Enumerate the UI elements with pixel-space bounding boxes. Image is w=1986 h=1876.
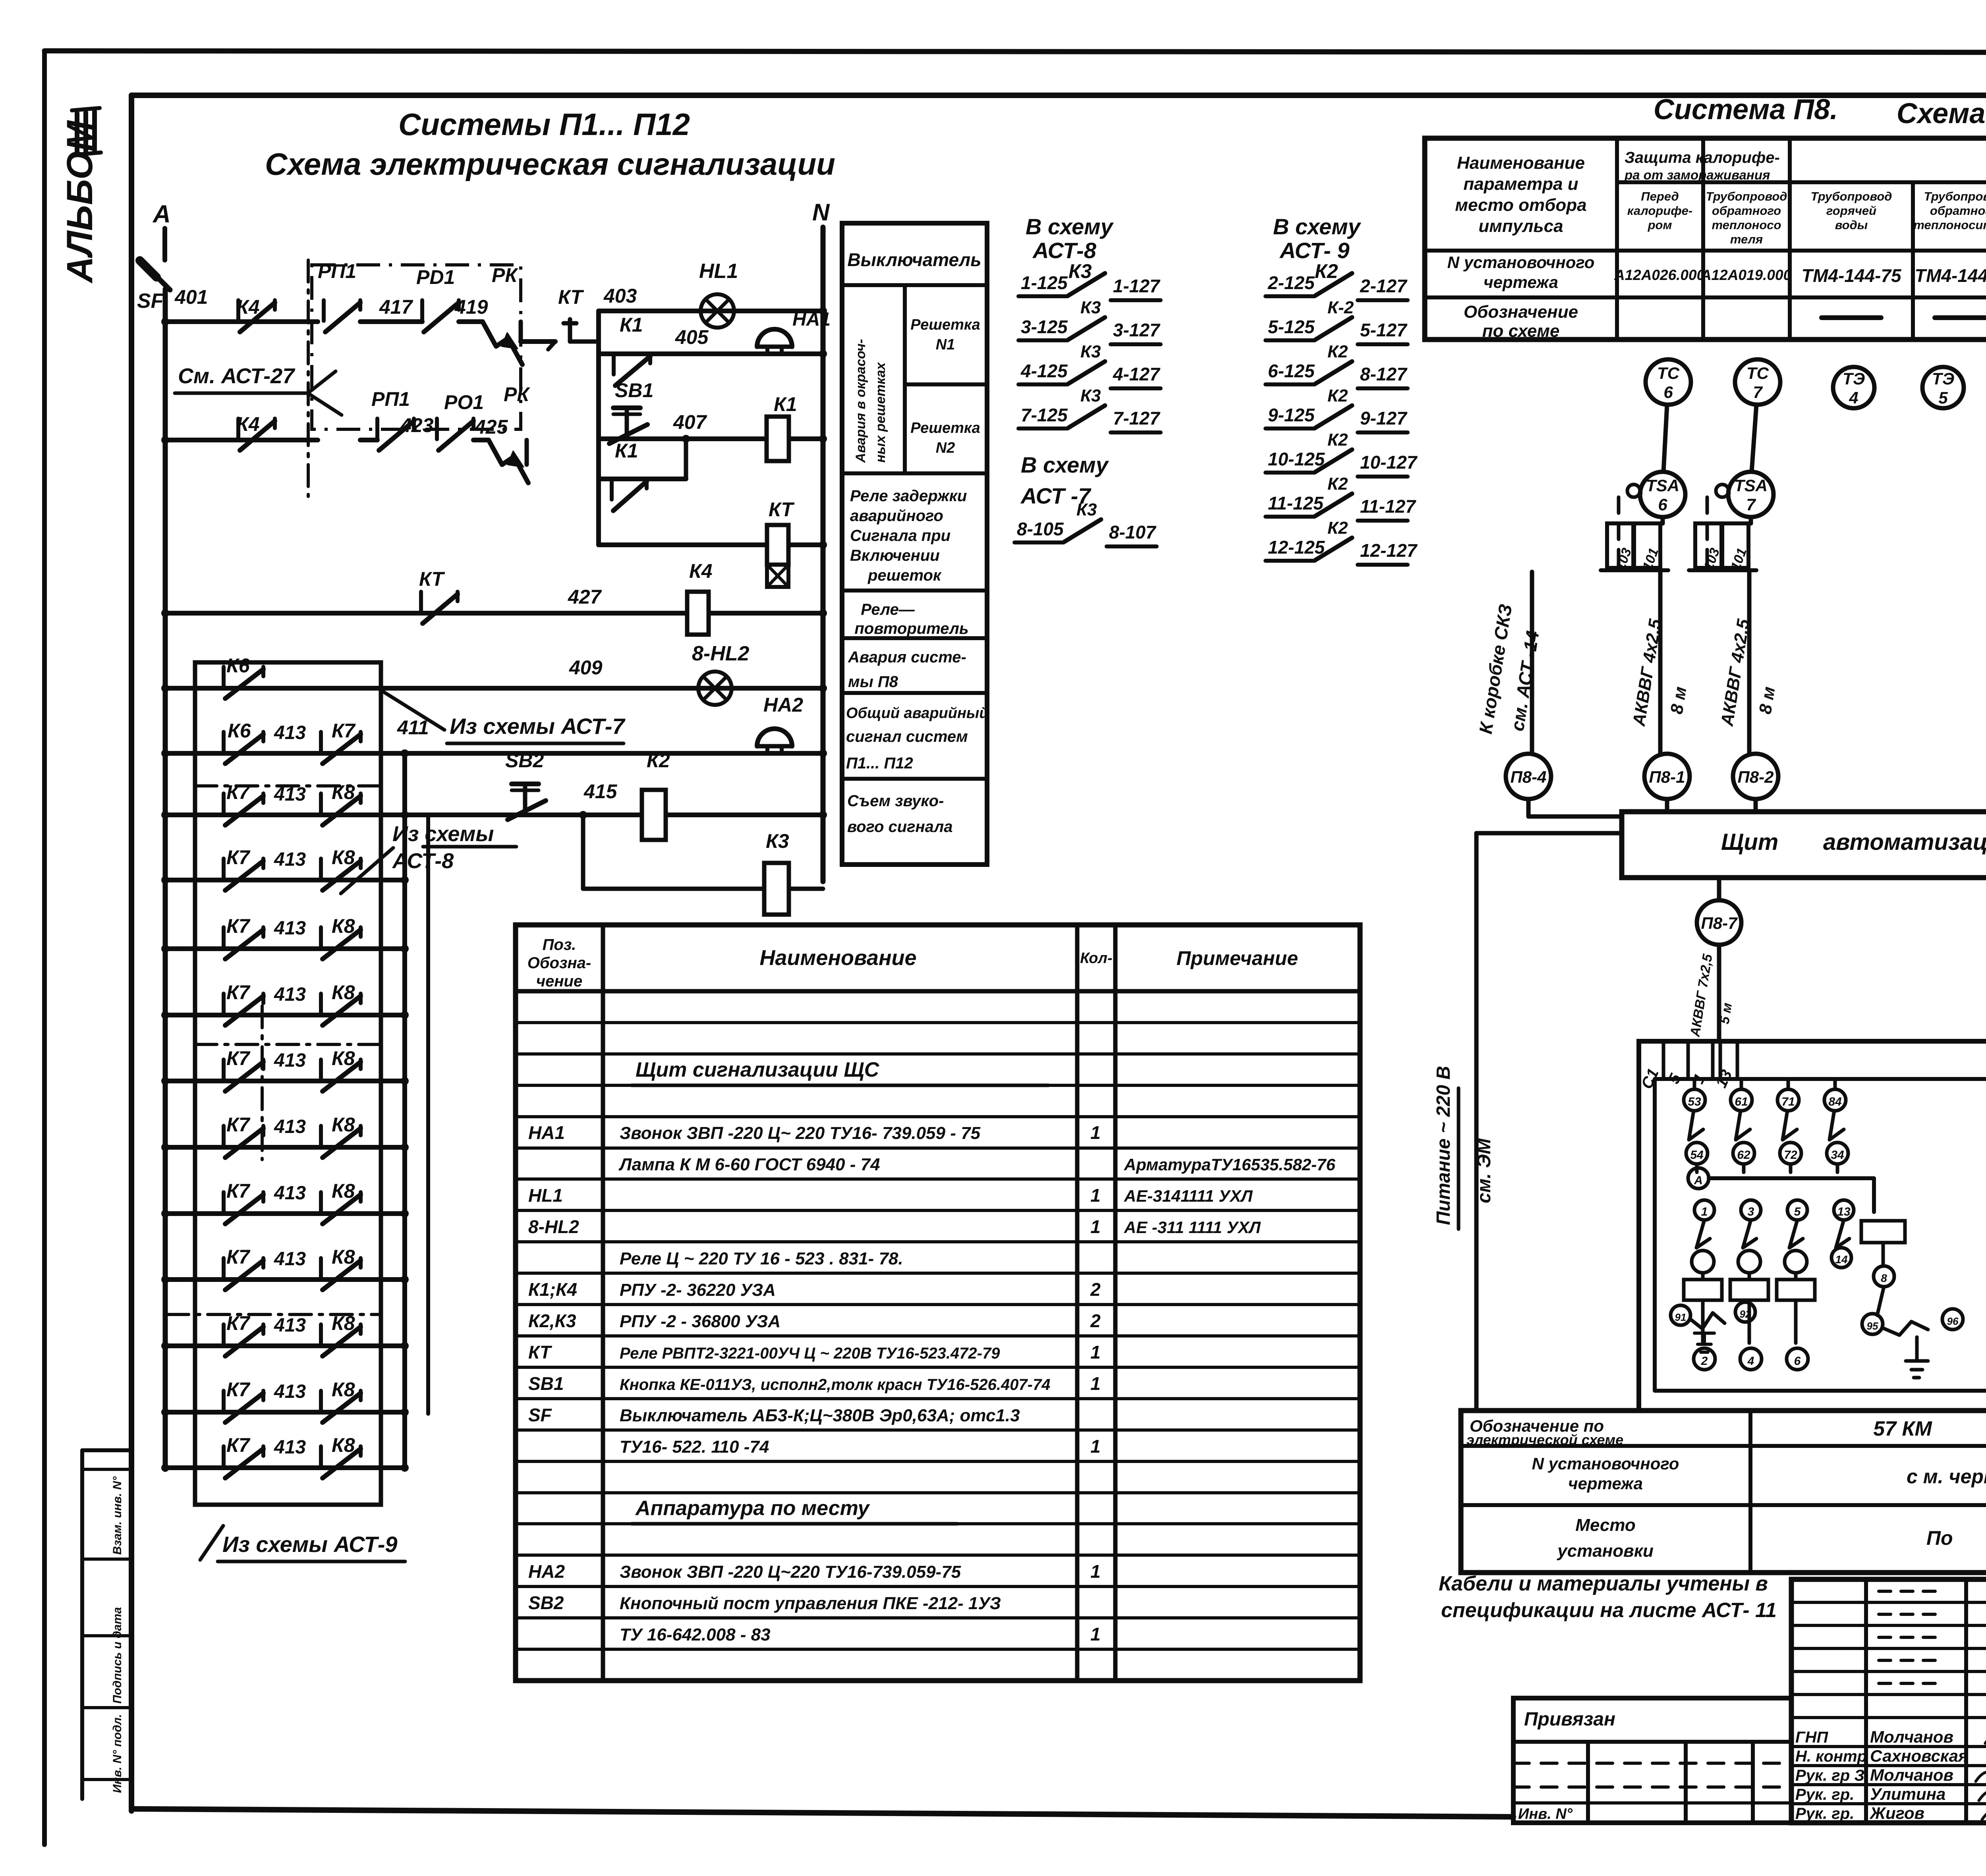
svg-text:Перед: Перед <box>1641 189 1679 203</box>
ТSА7 side circle <box>1716 484 1729 497</box>
svg-text:13: 13 <box>1837 1205 1851 1218</box>
svg-text:Решетка: Решетка <box>910 317 980 333</box>
transition П8-4 <box>1506 754 1551 799</box>
svg-text:К2,К3: К2,К3 <box>528 1310 576 1331</box>
svg-text:А12А019.000: А12А019.000 <box>1700 267 1792 283</box>
svg-text:К4: К4 <box>689 560 713 582</box>
svg-text:413: 413 <box>274 1116 306 1137</box>
wire ladder row7 413 <box>165 1079 405 1083</box>
svg-text:НА2: НА2 <box>528 1561 565 1582</box>
svg-text:параметра и: параметра и <box>1463 174 1578 194</box>
svg-text:95: 95 <box>1867 1320 1878 1332</box>
svg-text:7: 7 <box>1984 1063 1986 1079</box>
svg-text:5: 5 <box>1665 1071 1685 1086</box>
table row line <box>516 1084 1360 1087</box>
svg-text:мы П8: мы П8 <box>848 673 898 691</box>
svg-text:К2: К2 <box>647 749 670 772</box>
svg-text:АСТ-8: АСТ-8 <box>392 849 454 873</box>
svg-text:ТМ4-144-75: ТМ4-144-75 <box>1915 265 1986 286</box>
svg-text:НL1: НL1 <box>699 260 738 283</box>
svg-text:Н. контр: Н. контр <box>1795 1748 1867 1765</box>
svg-text:Щит сигнализации ЩС: Щит сигнализации ЩС <box>636 1058 880 1081</box>
table row line <box>516 1366 1360 1369</box>
svg-text:409: 409 <box>569 656 603 679</box>
page outer border left <box>42 51 47 1845</box>
table row line <box>516 1460 1360 1463</box>
table row line <box>516 1616 1360 1619</box>
leader АСТ-9 <box>200 1526 223 1560</box>
svg-text:повторитель: повторитель <box>854 620 968 637</box>
svg-text:7: 7 <box>1753 383 1763 401</box>
branch to К3 <box>581 815 585 889</box>
svg-text:84: 84 <box>1828 1095 1842 1108</box>
svg-text:К-2: К-2 <box>1327 298 1354 317</box>
wire ladder row12 413 <box>165 1410 405 1415</box>
svg-text:К7: К7 <box>226 1434 251 1456</box>
wire 427 rung <box>165 611 823 616</box>
svg-text:5 м: 5 м <box>1717 1002 1735 1025</box>
svg-text:92: 92 <box>1740 1308 1751 1320</box>
left margin stamp column <box>80 1450 84 1799</box>
svg-text:1-125: 1-125 <box>1021 272 1068 293</box>
svg-text:Кнопочный пост управления ПКЕ: Кнопочный пост управления ПКЕ -212- 1УЗ <box>620 1594 1001 1613</box>
table row line <box>516 1428 1360 1432</box>
svg-text:54: 54 <box>1690 1148 1704 1162</box>
svg-text:чертежа: чертежа <box>1484 273 1558 291</box>
svg-text:ТSА: ТSА <box>1734 476 1768 495</box>
inner frame bottom <box>131 1809 1513 1817</box>
svg-text:413: 413 <box>274 1315 306 1336</box>
svg-text:Обозна-: Обозна- <box>527 954 591 972</box>
wire rung 411 ladder row2 <box>165 751 823 756</box>
svg-text:К7: К7 <box>226 781 251 803</box>
svg-text:АСТ- 9: АСТ- 9 <box>1279 238 1350 263</box>
svg-text:К2: К2 <box>1327 474 1348 494</box>
svg-text:Подпись и дата: Подпись и дата <box>111 1607 124 1704</box>
svg-text:решеток: решеток <box>867 567 942 584</box>
wire rung 2nd (АСТ-27 line) <box>165 438 318 442</box>
cable П8-7 drop <box>1717 945 1721 1041</box>
instrument ТSА7 <box>1728 472 1773 517</box>
svg-text:11-127: 11-127 <box>1360 496 1416 517</box>
wire П8-2 drop <box>1754 799 1758 812</box>
svg-text:1: 1 <box>1090 1373 1101 1394</box>
svg-text:Общий аварийный: Общий аварийный <box>846 705 989 722</box>
svg-text:теля: теля <box>1730 232 1763 246</box>
svg-text:8 м: 8 м <box>1755 685 1779 716</box>
svg-text:1-127: 1-127 <box>1113 276 1161 296</box>
svg-text:По: По <box>1926 1527 1953 1549</box>
svg-text:9-125: 9-125 <box>1268 405 1315 425</box>
wire ladder row6 413 <box>165 1013 405 1017</box>
svg-text:К2: К2 <box>1315 260 1338 282</box>
svg-text:1: 1 <box>1701 1205 1708 1218</box>
svg-text:ТС: ТС <box>1746 364 1769 382</box>
svg-text:РП1: РП1 <box>318 260 356 282</box>
svg-text:1: 1 <box>1090 1216 1101 1237</box>
svg-text:горячей: горячей <box>1826 204 1876 218</box>
svg-text:Реле РВПТ2-3221-00УЧ Ц ~ 220: Реле РВПТ2-3221-00УЧ Ц ~ 220В ТУ16-523.4… <box>620 1345 1000 1362</box>
instrument ТЭ5 <box>1922 367 1964 408</box>
svg-text:П8-4: П8-4 <box>1511 768 1547 786</box>
svg-text:401: 401 <box>174 286 208 308</box>
svg-text:НА2: НА2 <box>763 694 803 716</box>
svg-text:ГНП: ГНП <box>1795 1729 1828 1746</box>
svg-text:61: 61 <box>1735 1095 1748 1108</box>
automation panel 8ЩА box <box>1622 812 1986 878</box>
svg-text:3-125: 3-125 <box>1021 317 1068 337</box>
svg-text:П8-1: П8-1 <box>1649 768 1685 786</box>
table row line <box>516 1052 1360 1056</box>
svg-text:П1... П12: П1... П12 <box>846 755 913 772</box>
svg-text:72: 72 <box>1784 1148 1797 1162</box>
breaker SF <box>145 265 170 290</box>
svg-text:сигнал систем: сигнал систем <box>846 728 968 745</box>
svg-text:403: 403 <box>603 285 637 307</box>
svg-text:ТМ4-144-75: ТМ4-144-75 <box>1801 265 1902 286</box>
svg-text:Наименование: Наименование <box>759 946 916 970</box>
svg-text:чение: чение <box>536 973 582 990</box>
svg-text:5-127: 5-127 <box>1360 320 1408 340</box>
svg-text:теплоносо: теплоносо <box>1712 218 1781 232</box>
svg-text:АСТ-8: АСТ-8 <box>1032 238 1097 263</box>
table row line <box>516 1648 1360 1651</box>
svg-text:4-125: 4-125 <box>1020 361 1068 381</box>
svg-text:427: 427 <box>568 586 602 608</box>
svg-text:425: 425 <box>474 416 508 438</box>
album numeral III <box>72 108 100 110</box>
svg-text:Из схемы АСТ-9: Из схемы АСТ-9 <box>222 1532 397 1557</box>
svg-text:ТУ 16-642.008 - 83: ТУ 16-642.008 - 83 <box>620 1625 771 1644</box>
svg-text:К2: К2 <box>1327 342 1348 361</box>
svg-text:импульса: импульса <box>1478 216 1563 236</box>
svg-text:Обозначение: Обозначение <box>1464 302 1578 322</box>
svg-text:1: 1 <box>1090 1436 1101 1457</box>
svg-text:4-127: 4-127 <box>1113 364 1161 384</box>
svg-text:обратного: обратного <box>1930 204 1986 218</box>
svg-text:1: 1 <box>1090 1624 1101 1644</box>
supply wire 220V <box>1476 831 1622 836</box>
wire ТС7-ТSА7 <box>1752 405 1756 472</box>
svg-text:417: 417 <box>379 296 413 318</box>
svg-text:П8-2: П8-2 <box>1738 768 1774 786</box>
svg-text:Авария систе-: Авария систе- <box>848 648 966 666</box>
svg-text:413: 413 <box>274 918 306 939</box>
svg-text:SВ1: SВ1 <box>615 379 653 401</box>
svg-text:ТSА: ТSА <box>1646 476 1679 495</box>
wire ladder row5 413 <box>165 946 405 951</box>
svg-text:В схему: В схему <box>1273 214 1362 239</box>
svg-text:К1: К1 <box>774 393 797 415</box>
privyazan box <box>1513 1698 1791 1823</box>
svg-text:Щит: Щит <box>1721 829 1778 855</box>
vertical bus aux <box>426 815 430 1414</box>
svg-text:НА1: НА1 <box>528 1122 565 1143</box>
wire rung 409 ladder row1 <box>165 686 381 691</box>
wire П8-1 drop <box>1665 799 1669 812</box>
svg-text:1: 1 <box>1090 1342 1101 1363</box>
svg-text:6: 6 <box>1794 1355 1801 1368</box>
inner frame top <box>131 93 1986 98</box>
svg-text:К3: К3 <box>1080 342 1101 361</box>
svg-text:2-125: 2-125 <box>1267 272 1315 293</box>
svg-text:ных решетках: ных решетках <box>873 361 888 463</box>
svg-text:К3: К3 <box>1080 298 1101 317</box>
table row line <box>516 1522 1360 1525</box>
transition П8-2 <box>1733 754 1778 799</box>
svg-text:калорифе-: калорифе- <box>1627 204 1692 218</box>
svg-text:Схема электрическая сигнализ: Схема электрическая сигнализации <box>265 147 835 181</box>
svg-text:КТ: КТ <box>769 498 795 521</box>
svg-text:Жигов: Жигов <box>1869 1804 1924 1822</box>
instrument ТЭ4 <box>1833 367 1874 408</box>
svg-text:ра от замораживания: ра от замораживания <box>1624 168 1770 182</box>
fork arrow АСТ-27 <box>308 371 342 415</box>
svg-text:Реле задержки: Реле задержки <box>850 487 967 505</box>
svg-text:Молчанов: Молчанов <box>1870 1727 1953 1746</box>
table row line <box>516 1115 1360 1118</box>
svg-text:Инв. N°: Инв. N° <box>1518 1806 1573 1822</box>
svg-text:SВ2: SВ2 <box>528 1592 564 1613</box>
ladder frame box <box>195 662 381 1505</box>
svg-text:НL1: НL1 <box>528 1185 563 1206</box>
dash-dot h-line in box 3 <box>167 1313 381 1316</box>
svg-text:К6: К6 <box>226 654 250 677</box>
svg-text:теплоносителя: теплоносителя <box>1913 218 1986 232</box>
svg-text:чертежа: чертежа <box>1568 1474 1643 1493</box>
svg-text:Выключатель АБ3-К;Ц~380В Эр0,6: Выключатель АБ3-К;Ц~380В Эр0,63А; отс1.3 <box>620 1406 1020 1425</box>
svg-text:КТ: КТ <box>419 568 445 590</box>
svg-text:АрматураТУ16535.582-76: АрматураТУ16535.582-76 <box>1124 1155 1336 1174</box>
svg-text:К7: К7 <box>226 915 251 937</box>
svg-text:см. ЭМ: см. ЭМ <box>1474 1138 1495 1203</box>
svg-text:К3: К3 <box>766 830 789 852</box>
svg-text:С1: С1 <box>1638 1066 1662 1092</box>
svg-text:411: 411 <box>397 716 429 739</box>
svg-text:5: 5 <box>1794 1205 1801 1218</box>
svg-text:1: 1 <box>1090 1561 1101 1582</box>
svg-text:Трубопровод: Трубопровод <box>1811 189 1892 203</box>
svg-text:Кабели и материалы учтены в: Кабели и материалы учтены в <box>1439 1572 1768 1595</box>
svg-text:N: N <box>812 199 830 226</box>
svg-text:ТС: ТС <box>1657 364 1680 382</box>
table row line <box>516 1397 1360 1400</box>
svg-text:413: 413 <box>274 1050 306 1071</box>
svg-text:8-НL2: 8-НL2 <box>528 1216 579 1237</box>
svg-text:обратного: обратного <box>1712 204 1781 218</box>
svg-text:К3: К3 <box>1080 386 1101 405</box>
wire ТSА6-П8-1 <box>1661 517 1665 523</box>
wire rung 401 <box>165 319 318 324</box>
annunciator window table <box>842 223 987 865</box>
svg-text:Системы П1... П12: Системы П1... П12 <box>398 107 690 142</box>
svg-text:Кол-: Кол- <box>1080 950 1112 967</box>
svg-text:91: 91 <box>1675 1311 1687 1323</box>
stamp signature columns <box>1864 1579 1868 1823</box>
svg-text:2-127: 2-127 <box>1360 276 1408 296</box>
svg-text:N2: N2 <box>936 440 955 456</box>
svg-text:415: 415 <box>583 780 618 803</box>
svg-text:10-127: 10-127 <box>1360 452 1418 473</box>
svg-text:7: 7 <box>1746 495 1756 514</box>
svg-text:вого сигнала: вого сигнала <box>847 818 953 836</box>
svg-text:ТЭ: ТЭ <box>1932 369 1954 388</box>
page outer border top <box>44 51 1986 53</box>
svg-text:А: А <box>1694 1174 1703 1187</box>
wire ladder row10 413 <box>165 1277 405 1282</box>
svg-text:аварийного: аварийного <box>850 507 943 525</box>
leader АСТ-7 <box>382 691 444 730</box>
table row line <box>516 1209 1360 1212</box>
svg-text:ТЭ: ТЭ <box>1843 369 1865 388</box>
wire 405 rung <box>599 351 823 356</box>
svg-text:Схема подключений: Схема подключений <box>1897 98 1986 129</box>
wire 407 rung <box>599 436 823 441</box>
ТSА6 side circle <box>1627 484 1640 497</box>
svg-text:К6: К6 <box>228 720 251 742</box>
parameters table frame <box>1425 138 1986 340</box>
svg-text:57 КМ: 57 КМ <box>1873 1417 1932 1440</box>
svg-text:10-125: 10-125 <box>1268 449 1325 469</box>
svg-text:Наименование: Наименование <box>1457 153 1585 173</box>
svg-text:РП1: РП1 <box>371 388 410 410</box>
svg-text:Реле Ц ~ 220 ТУ 16 -: Реле Ц ~ 220 ТУ 16 - 523 . 831- 78. <box>620 1249 903 1268</box>
wire ladder row13 413 <box>165 1465 405 1470</box>
svg-text:Поз.: Поз. <box>543 936 576 953</box>
table row line <box>516 1272 1360 1275</box>
svg-text:К1: К1 <box>620 314 643 336</box>
svg-text:11-125: 11-125 <box>1268 493 1324 513</box>
svg-text:К7: К7 <box>226 1180 251 1202</box>
svg-text:К1;К4: К1;К4 <box>528 1279 577 1300</box>
svg-text:Решетка: Решетка <box>910 420 980 436</box>
svg-text:см. АСТ -14: см. АСТ -14 <box>1507 629 1543 733</box>
transition П8-7 <box>1717 878 1721 900</box>
wire from РК to КТ push <box>521 339 555 344</box>
terminal box 103/101 set1 <box>1607 523 1633 568</box>
table row line <box>516 1240 1360 1243</box>
instrument ТС6 <box>1646 359 1691 405</box>
svg-text:413: 413 <box>274 1249 306 1270</box>
svg-text:413: 413 <box>274 1381 306 1402</box>
svg-text:ром: ром <box>1648 218 1672 232</box>
svg-text:Съем звуко-: Съем звуко- <box>847 792 944 810</box>
svg-text:Привязан: Привязан <box>1524 1709 1615 1730</box>
svg-text:Взам. инв. N°: Взам. инв. N° <box>111 1476 124 1555</box>
svg-text:8-105: 8-105 <box>1017 519 1064 539</box>
svg-text:12-125: 12-125 <box>1268 537 1325 558</box>
wire ТС6-ТSА6 <box>1663 405 1667 472</box>
svg-text:8-107: 8-107 <box>1109 522 1157 542</box>
svg-text:96: 96 <box>1947 1315 1959 1327</box>
wire ladder row9 413 <box>165 1211 405 1216</box>
svg-text:К2: К2 <box>1327 518 1348 538</box>
svg-text:1: 1 <box>1090 1185 1101 1206</box>
dash-dot v-line in box <box>261 1006 264 1160</box>
dash-dot selection box РП1/РD1/РК <box>312 265 521 429</box>
svg-text:53: 53 <box>1688 1095 1701 1108</box>
svg-text:Лампа К М 6-60 ГОСТ 6940: Лампа К М 6-60 ГОСТ 6940 - 74 <box>618 1155 880 1174</box>
svg-text:Молчанов: Молчанов <box>1870 1766 1953 1784</box>
svg-text:АКВВГ 7х2,5: АКВВГ 7х2,5 <box>1687 953 1716 1038</box>
instrument ТSА6 <box>1640 472 1685 517</box>
svg-text:Рук. гр.: Рук. гр. <box>1795 1805 1854 1822</box>
table row line <box>516 1554 1360 1557</box>
svg-text:Сигнала при: Сигнала при <box>850 527 950 544</box>
svg-text:К7: К7 <box>226 1114 251 1136</box>
svg-text:электрической схеме: электрической схеме <box>1466 1432 1623 1448</box>
svg-text:SВ2: SВ2 <box>505 749 544 772</box>
wire ladder row11 413 <box>165 1343 405 1348</box>
svg-text:8-127: 8-127 <box>1360 364 1408 384</box>
svg-text:Звонок ЗВП -220 Ц~220 ТУ16-: Звонок ЗВП -220 Ц~220 ТУ16-739.059-75 <box>620 1562 961 1582</box>
svg-text:3-127: 3-127 <box>1113 320 1161 340</box>
svg-text:РК: РК <box>492 264 518 286</box>
svg-text:К7: К7 <box>226 1312 251 1334</box>
svg-text:Место: Место <box>1575 1515 1636 1535</box>
svg-text:71: 71 <box>1781 1095 1795 1108</box>
svg-text:12-127: 12-127 <box>1360 540 1418 561</box>
table row line <box>516 1146 1360 1150</box>
left bus vertical <box>163 289 168 1469</box>
svg-text:РО1: РО1 <box>444 391 484 413</box>
svg-text:N установочного: N установочного <box>1532 1454 1679 1473</box>
svg-text:К2: К2 <box>1327 430 1348 450</box>
table row line <box>516 1303 1360 1306</box>
svg-text:Улитина: Улитина <box>1870 1785 1945 1803</box>
svg-text:К7: К7 <box>226 846 251 869</box>
svg-text:8-НL2: 8-НL2 <box>692 642 750 665</box>
inner frame left <box>129 95 134 1811</box>
svg-text:407: 407 <box>673 411 707 433</box>
svg-text:К3: К3 <box>1068 260 1092 282</box>
dash-dot h-line in box 2 <box>195 1043 381 1046</box>
svg-text:7-127: 7-127 <box>1113 408 1161 428</box>
wire rung к1-branch <box>599 477 686 481</box>
svg-text:5: 5 <box>1938 388 1948 407</box>
svg-text:5-125: 5-125 <box>1268 317 1315 337</box>
svg-text:9-127: 9-127 <box>1360 408 1408 428</box>
svg-text:установки: установки <box>1557 1541 1654 1561</box>
wire bottom of sub-box <box>599 542 823 547</box>
wire ladder row8 413 <box>165 1145 405 1150</box>
svg-text:413: 413 <box>274 849 306 870</box>
svg-text:Питание ~ 220 В: Питание ~ 220 В <box>1433 1066 1454 1225</box>
svg-text:Примечание: Примечание <box>1177 947 1298 969</box>
svg-text:413: 413 <box>274 1183 306 1204</box>
svg-text:место отбора: место отбора <box>1455 195 1586 215</box>
wire to СКЗ <box>1530 572 1534 754</box>
svg-text:Из схемы АСТ-7: Из схемы АСТ-7 <box>450 714 626 739</box>
title block stamp outline <box>1791 1579 1986 1823</box>
svg-text:6: 6 <box>1663 383 1673 401</box>
svg-text:N1: N1 <box>936 336 955 353</box>
svg-text:Кнопка КЕ-011УЗ, исполн2,толк: Кнопка КЕ-011УЗ, исполн2,толк красн ТУ16… <box>620 1376 1051 1393</box>
svg-text:413: 413 <box>274 722 306 743</box>
svg-text:АЕ -311 1111 УХЛ: АЕ -311 1111 УХЛ <box>1124 1218 1261 1237</box>
svg-text:Включении: Включении <box>850 547 940 564</box>
svg-text:Трубопровод: Трубопровод <box>1924 189 1986 203</box>
svg-text:413: 413 <box>274 984 306 1005</box>
wire ladder row4 413 <box>165 878 405 882</box>
svg-text:3: 3 <box>1748 1205 1754 1218</box>
dashed drop ТSА7 <box>1706 497 1709 568</box>
svg-text:4: 4 <box>1849 388 1858 407</box>
svg-text:1: 1 <box>1090 1122 1101 1143</box>
svg-text:Звонок ЗВП -220 Ц~ 220 ТУ16: Звонок ЗВП -220 Ц~ 220 ТУ16- 739.059 - 7… <box>620 1123 981 1143</box>
svg-text:SF: SF <box>528 1405 553 1425</box>
svg-text:спецификации на листе АСТ- 1: спецификации на листе АСТ- 11 <box>1441 1599 1777 1622</box>
